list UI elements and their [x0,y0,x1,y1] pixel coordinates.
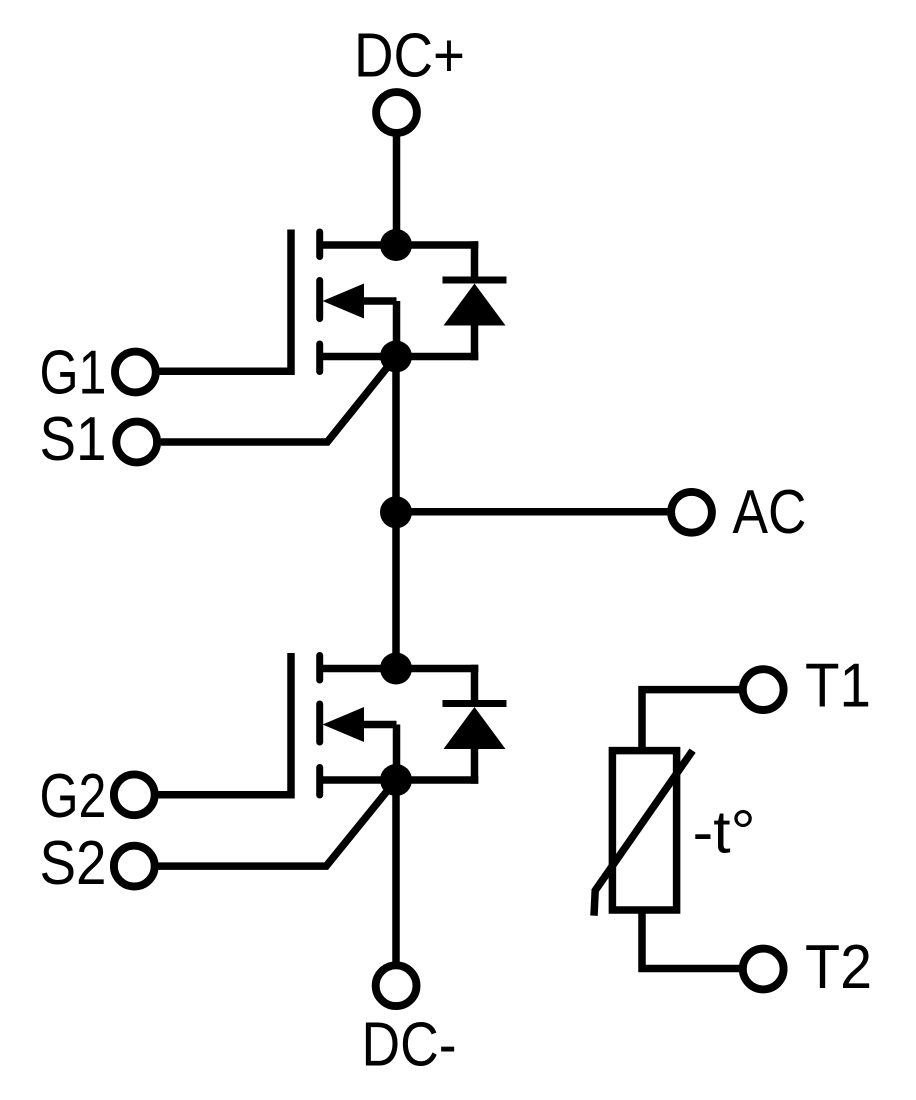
svg-text:DC+: DC+ [354,22,465,91]
wire DC+ to Q1 drain [393,136,401,245]
D2 triangle [444,707,506,749]
junction Q2 drain [380,653,412,685]
Q1 channel dashes [316,232,323,372]
terminal DC- [376,965,417,1006]
thermistor RT diagonal stroke [594,751,693,916]
wire T1 to thermistor RT [642,690,740,751]
wire S1 to Q1 source [161,357,396,443]
wire S2 to Q2 source [158,780,396,866]
svg-text:-t°: -t° [693,799,756,866]
terminal G1 [115,352,156,393]
Q2 drain lead [320,665,479,673]
svg-text:G2: G2 [40,762,107,831]
junction AC node [380,496,412,528]
diode D2 (body diode of Q2) [443,665,507,784]
terminal AC [671,492,712,533]
D2 cathode bar [443,700,507,707]
D2 anode-side wire [471,749,479,784]
junction Q1 drain [380,229,412,261]
terminal G2 [114,774,155,815]
svg-text:T2: T2 [805,933,872,1002]
wire G1 (joins Q1 gate line) [160,368,292,376]
D1 anode-side wire [471,326,479,361]
transistor Q1 [163,230,478,372]
diode D1 (body diode of Q1) [443,241,507,360]
wire AC node to AC terminal [396,508,668,516]
D1 cathode bar [443,277,507,284]
thermistor RT body [612,751,676,910]
terminal S1 [116,422,157,463]
wire AC node to Q2 drain [392,512,400,668]
Q2 body arrow [323,707,397,780]
D2 cathode-side wire [471,665,479,704]
D1 triangle [444,284,506,326]
wire Q1 source to AC node [392,357,400,513]
transistor Q2 [163,653,478,795]
svg-text:T1: T1 [805,652,871,721]
wire G2 (joins Q2 gate line) [159,791,292,799]
terminal T1 [743,669,784,710]
svg-text:S1: S1 [40,405,107,474]
junction Q2 source [380,764,412,796]
Q1 body arrow [323,284,397,357]
wire thermistor RT to T2 [642,910,740,969]
Q2 channel dashes [316,656,323,796]
Q1 gate line [163,230,291,372]
terminal DC+ [376,92,417,133]
svg-text:DC-: DC- [362,1011,457,1080]
Q2 source lead [320,776,479,784]
junction Q1 source [380,341,412,373]
Q2 gate line [163,653,291,795]
svg-text:AC: AC [733,478,807,547]
terminal S2 [114,846,155,887]
terminal T2 [743,949,784,990]
D1 cathode-side wire [471,241,479,280]
svg-text:S2: S2 [40,829,107,898]
svg-text:G1: G1 [40,339,107,408]
Q1 drain lead [320,241,479,249]
Q1 source lead [320,353,479,361]
wire Q2 source to DC- terminal [392,780,400,962]
